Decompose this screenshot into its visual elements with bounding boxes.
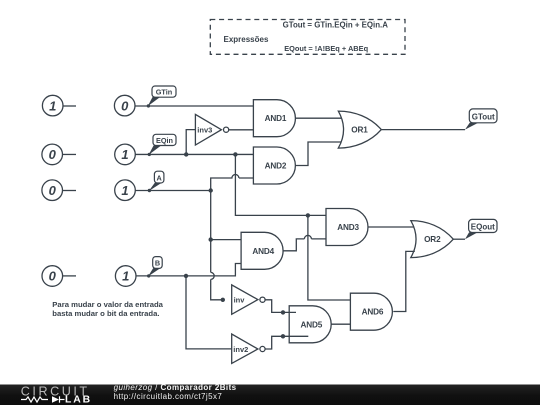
svg-text:EQout: EQout [471,223,495,232]
svg-text:1: 1 [122,269,129,284]
svg-text:Para mudar o valor da entrada: Para mudar o valor da entrada [52,300,163,309]
svg-text:1: 1 [49,98,56,113]
svg-text:OR1: OR1 [351,126,368,135]
svg-text:AND4: AND4 [252,247,274,256]
svg-text:A: A [157,173,163,182]
svg-text:OR2: OR2 [424,235,441,244]
svg-text:AND3: AND3 [337,223,359,232]
svg-text:Expressões: Expressões [224,35,269,44]
svg-text:0: 0 [121,98,129,113]
svg-text:0: 0 [49,147,57,162]
svg-text:0: 0 [49,269,57,284]
svg-text:basta mudar o bit da entrada.: basta mudar o bit da entrada. [52,309,159,318]
svg-text:inv2: inv2 [233,345,248,354]
svg-text:EQout = !A!BEq + ABEq: EQout = !A!BEq + ABEq [284,44,368,53]
svg-text:EQin: EQin [156,136,173,145]
svg-text:1: 1 [121,147,128,162]
svg-text:1: 1 [121,183,128,198]
svg-text:AND2: AND2 [265,162,287,171]
svg-text:AND6: AND6 [362,308,384,317]
svg-text:LAB: LAB [65,395,92,405]
svg-text:GTout: GTout [472,112,495,121]
svg-text:0: 0 [49,183,57,198]
svg-text:inv: inv [234,296,246,305]
svg-text:inv3: inv3 [197,126,212,135]
svg-text:GTin: GTin [156,88,173,97]
svg-text:B: B [155,259,160,268]
svg-text:AND5: AND5 [300,320,322,329]
svg-text:AND1: AND1 [265,114,287,123]
svg-text:GTout = GTin.EQin + EQin.A: GTout = GTin.EQin + EQin.A [283,21,389,30]
